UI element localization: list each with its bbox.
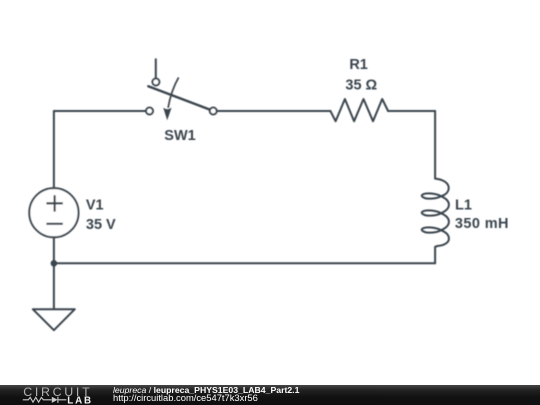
- wire: SW1 right terminal to R1: [217, 110, 330, 112]
- svg-text:L1: L1: [455, 198, 472, 214]
- svg-text:V1: V1: [86, 198, 104, 214]
- switch SW1 upper terminal stub: [155, 59, 157, 78]
- voltage source V1 circle: [29, 188, 78, 237]
- wire: left vertical from top rail down to V1: [53, 111, 55, 189]
- switch SW1 right terminal circle: [210, 108, 217, 115]
- switch SW1 blade: [148, 86, 211, 110]
- svg-text:R1: R1: [349, 57, 368, 73]
- ground symbol: [33, 309, 75, 330]
- svg-text:35 Ω: 35 Ω: [345, 77, 377, 93]
- inductor L1 coil with entry/exit wires: [422, 111, 449, 263]
- CircuitLab logo: resistor zigzag + diode glyph: [23, 397, 52, 402]
- V1 minus sign: [46, 223, 62, 225]
- svg-text:http://circuitlab.com/ce547t7k: http://circuitlab.com/ce547t7k3xr56: [113, 392, 258, 403]
- wire: V1 bottom through junction to ground: [53, 237, 55, 308]
- switch SW1 upper terminal circle: [152, 79, 159, 86]
- wire: top rail to SW1 left terminal: [54, 110, 146, 112]
- switch SW1 left terminal circle: [146, 108, 153, 115]
- resistor R1: [330, 99, 388, 121]
- wire: R1 to top-right corner: [388, 110, 435, 112]
- wire: bottom rail: [54, 262, 435, 264]
- switch SW1 arrowhead: [163, 108, 171, 121]
- svg-text:350 mH: 350 mH: [455, 216, 509, 232]
- svg-text:LAB: LAB: [67, 396, 93, 405]
- switch SW1 actuation arrow arc: [168, 77, 179, 107]
- node: junction dot bottom-left: [51, 260, 58, 267]
- V1 plus sign: [46, 195, 62, 211]
- svg-text:35 V: 35 V: [86, 217, 116, 233]
- svg-text:SW1: SW1: [164, 128, 195, 144]
